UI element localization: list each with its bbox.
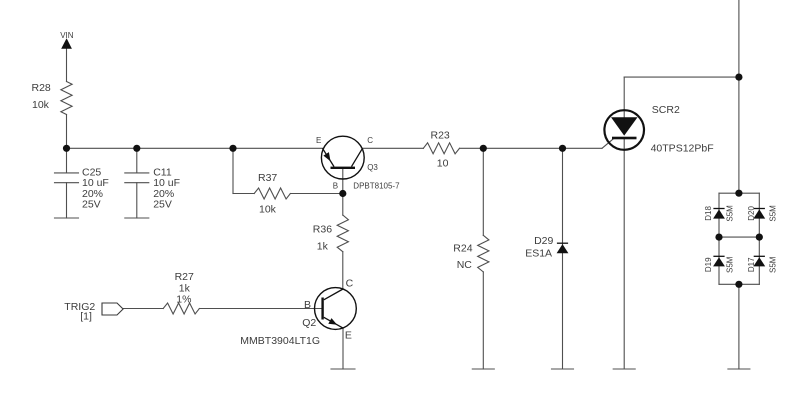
svg-text:S5M: S5M	[725, 205, 734, 222]
svg-text:10: 10	[437, 157, 449, 169]
svg-text:ES1A: ES1A	[525, 247, 552, 259]
svg-text:1%: 1%	[176, 293, 191, 305]
svg-text:E: E	[316, 136, 321, 145]
svg-text:NC: NC	[457, 259, 473, 271]
svg-text:C: C	[346, 278, 354, 290]
svg-text:10k: 10k	[32, 99, 50, 111]
svg-text:R37: R37	[258, 172, 277, 184]
svg-text:S5M: S5M	[725, 256, 734, 273]
svg-text:10k: 10k	[259, 204, 277, 216]
svg-text:D20: D20	[747, 206, 756, 221]
svg-text:S5M: S5M	[768, 256, 777, 273]
svg-text:B: B	[304, 299, 311, 311]
svg-text:B: B	[333, 181, 338, 190]
svg-text:Q2: Q2	[302, 317, 316, 329]
svg-text:E: E	[345, 329, 352, 341]
svg-text:R23: R23	[431, 130, 450, 142]
svg-text:R24: R24	[453, 243, 472, 255]
svg-text:D17: D17	[747, 257, 756, 272]
svg-text:D29: D29	[534, 235, 553, 247]
svg-text:S5M: S5M	[768, 205, 777, 222]
svg-text:SCR2: SCR2	[652, 104, 680, 116]
svg-text:R27: R27	[175, 271, 194, 283]
svg-text:25V: 25V	[82, 199, 101, 211]
svg-text:25V: 25V	[153, 199, 172, 211]
svg-text:VIN: VIN	[60, 31, 74, 40]
svg-text:C: C	[367, 136, 373, 145]
svg-text:R28: R28	[32, 82, 51, 94]
svg-text:R36: R36	[313, 224, 332, 236]
svg-text:MMBT3904LT1G: MMBT3904LT1G	[240, 335, 320, 347]
svg-text:D18: D18	[704, 206, 713, 221]
svg-text:40TPS12PbF: 40TPS12PbF	[651, 143, 714, 155]
svg-text:1k: 1k	[317, 241, 329, 253]
svg-text:D19: D19	[704, 257, 713, 272]
svg-text:[1]: [1]	[80, 310, 92, 322]
svg-text:DPBT8105-7: DPBT8105-7	[353, 181, 400, 190]
svg-text:Q3: Q3	[367, 163, 378, 172]
